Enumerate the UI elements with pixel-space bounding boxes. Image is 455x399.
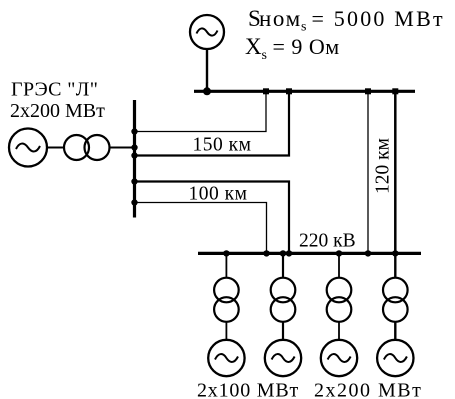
branch 4: wire bus to T5 (394, 253, 396, 278)
svg-text:s: s (262, 48, 267, 63)
node: W2a on bottom bus (286, 250, 292, 256)
wire G1 to top bus (206, 49, 208, 91)
node: W1b on left bus (131, 152, 137, 158)
line W1a 150 km circuit 1 (135, 91, 267, 131)
transformer T5 (383, 278, 408, 322)
svg-text:2х200 МВт: 2х200 МВт (314, 380, 422, 399)
wire T5 to G6 (394, 322, 396, 340)
svg-text:120 км: 120 км (373, 138, 394, 194)
transformer T4 (327, 278, 352, 322)
svg-text:220 кВ: 220 кВ (299, 231, 356, 252)
node: T1 junction on left bus (131, 144, 137, 150)
node: G1 junction on top bus (203, 87, 211, 95)
wire T4 to G5 (338, 322, 340, 340)
wire T1 to left bus (110, 147, 135, 149)
label X_s = 9 Om (245, 34, 340, 63)
svg-text:= 5000 МВт: = 5000 МВт (312, 6, 445, 31)
line W1b 150 km circuit 2 (135, 91, 290, 155)
node: W2b on bottom bus (263, 250, 269, 256)
transformer T3 (271, 278, 296, 322)
line W2b 100 km circuit 2 (135, 203, 267, 254)
svg-text:2х100 МВт: 2х100 МВт (197, 380, 299, 399)
bus: left GRES busbar (133, 100, 136, 218)
node: branch 3 on bottom bus (336, 250, 342, 256)
label Snom_s = 5000 MVt (248, 6, 445, 35)
branch 2: wire bus to T3 (282, 253, 284, 278)
node: W1a on left bus (131, 128, 137, 134)
bus: top 500 kV busbar (194, 90, 415, 93)
line W2a 100 km circuit 1 (135, 182, 290, 254)
svg-text:X: X (245, 34, 262, 59)
generator G6 (377, 340, 413, 376)
node: W1a on top bus (263, 88, 269, 94)
svg-text:100 км: 100 км (189, 184, 248, 205)
node: W1b on top bus (286, 88, 292, 94)
node: W2b on left bus (131, 199, 137, 205)
generator G1 (system source, top) (190, 15, 224, 49)
generator G5 (321, 340, 357, 376)
wire G2 to transformer T1 (47, 147, 64, 149)
branch 3: wire bus to T4 (338, 253, 340, 278)
node: branch 2 on bottom bus (280, 250, 286, 256)
generator G2 (GRES "L") (9, 129, 47, 167)
branch 1: wire bus to T2 (225, 253, 227, 278)
svg-text:s: s (301, 20, 306, 35)
wire T2 to G3 (225, 322, 227, 340)
svg-text:= 9 Ом: = 9 Ом (273, 34, 340, 59)
node: W3b on bottom bus (392, 250, 398, 256)
svg-text:2х200 МВт: 2х200 МВт (10, 100, 105, 122)
node: branch 1 on bottom bus (223, 250, 229, 256)
node: W3b on top bus (392, 88, 398, 94)
svg-text:150 км: 150 км (193, 135, 252, 156)
label GRES "L" 2x200 MVt (10, 79, 105, 123)
svg-text:ГРЭС "Л": ГРЭС "Л" (11, 79, 98, 101)
svg-text:ном: ном (259, 6, 302, 31)
node: W2a on left bus (131, 178, 137, 184)
node: W3a on bottom bus (365, 250, 371, 256)
generator G3 (208, 340, 244, 376)
transformer T2 (214, 278, 239, 322)
line W3b 120 km circuit 2 (394, 91, 397, 253)
bus: bottom 220 kV busbar (198, 252, 421, 255)
node: W3a on top bus (365, 88, 371, 94)
line W3a 120 km circuit 1 (367, 91, 369, 253)
generator G4 (265, 340, 301, 376)
wire T3 to G4 (282, 322, 284, 340)
transformer T1 (GRES step-up) (64, 135, 110, 160)
